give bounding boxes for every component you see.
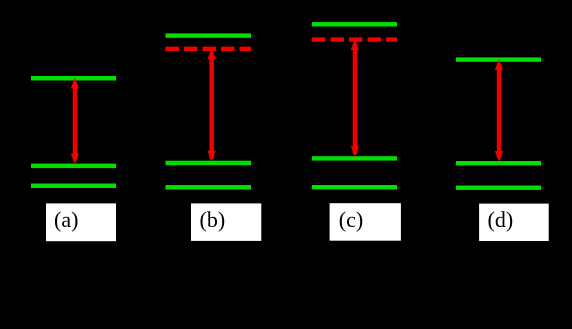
panel (c) virtual level dashed line: [312, 37, 397, 41]
panel (d) upper level line: [456, 57, 541, 61]
panel (b) virtual level dashed line: [166, 47, 252, 51]
svg-text:(d): (d): [488, 207, 514, 232]
panel (a) lower level line 2: [31, 184, 116, 189]
panel (b) label box: [191, 203, 261, 241]
panel (a) transition arrow: [71, 78, 79, 165]
panel (d) lower level line 1: [456, 161, 541, 165]
panel (b) lower level line 1: [166, 161, 252, 166]
panel (c) upper level line: [312, 22, 397, 26]
panel (a) label box: [46, 203, 116, 241]
panel (a) lower level line 1: [31, 164, 116, 169]
panel (d) transition arrow: [495, 59, 503, 162]
svg-text:(b): (b): [200, 207, 226, 232]
panel (c) label box: [330, 203, 401, 241]
panel (d) lower level line 2: [456, 186, 541, 190]
panel (a) upper level line: [31, 76, 116, 81]
panel (c) lower level line 1: [312, 156, 397, 160]
panel (b) transition arrow: [207, 48, 215, 161]
panel (b) lower level line 2: [166, 185, 252, 190]
panel (d) label box: [479, 204, 549, 241]
panel (c) transition arrow: [351, 39, 359, 157]
svg-text:(c): (c): [339, 207, 363, 232]
panel (b) upper level line: [166, 33, 252, 37]
panel (c) lower level line 2: [312, 185, 397, 189]
svg-text:(a): (a): [54, 207, 78, 232]
